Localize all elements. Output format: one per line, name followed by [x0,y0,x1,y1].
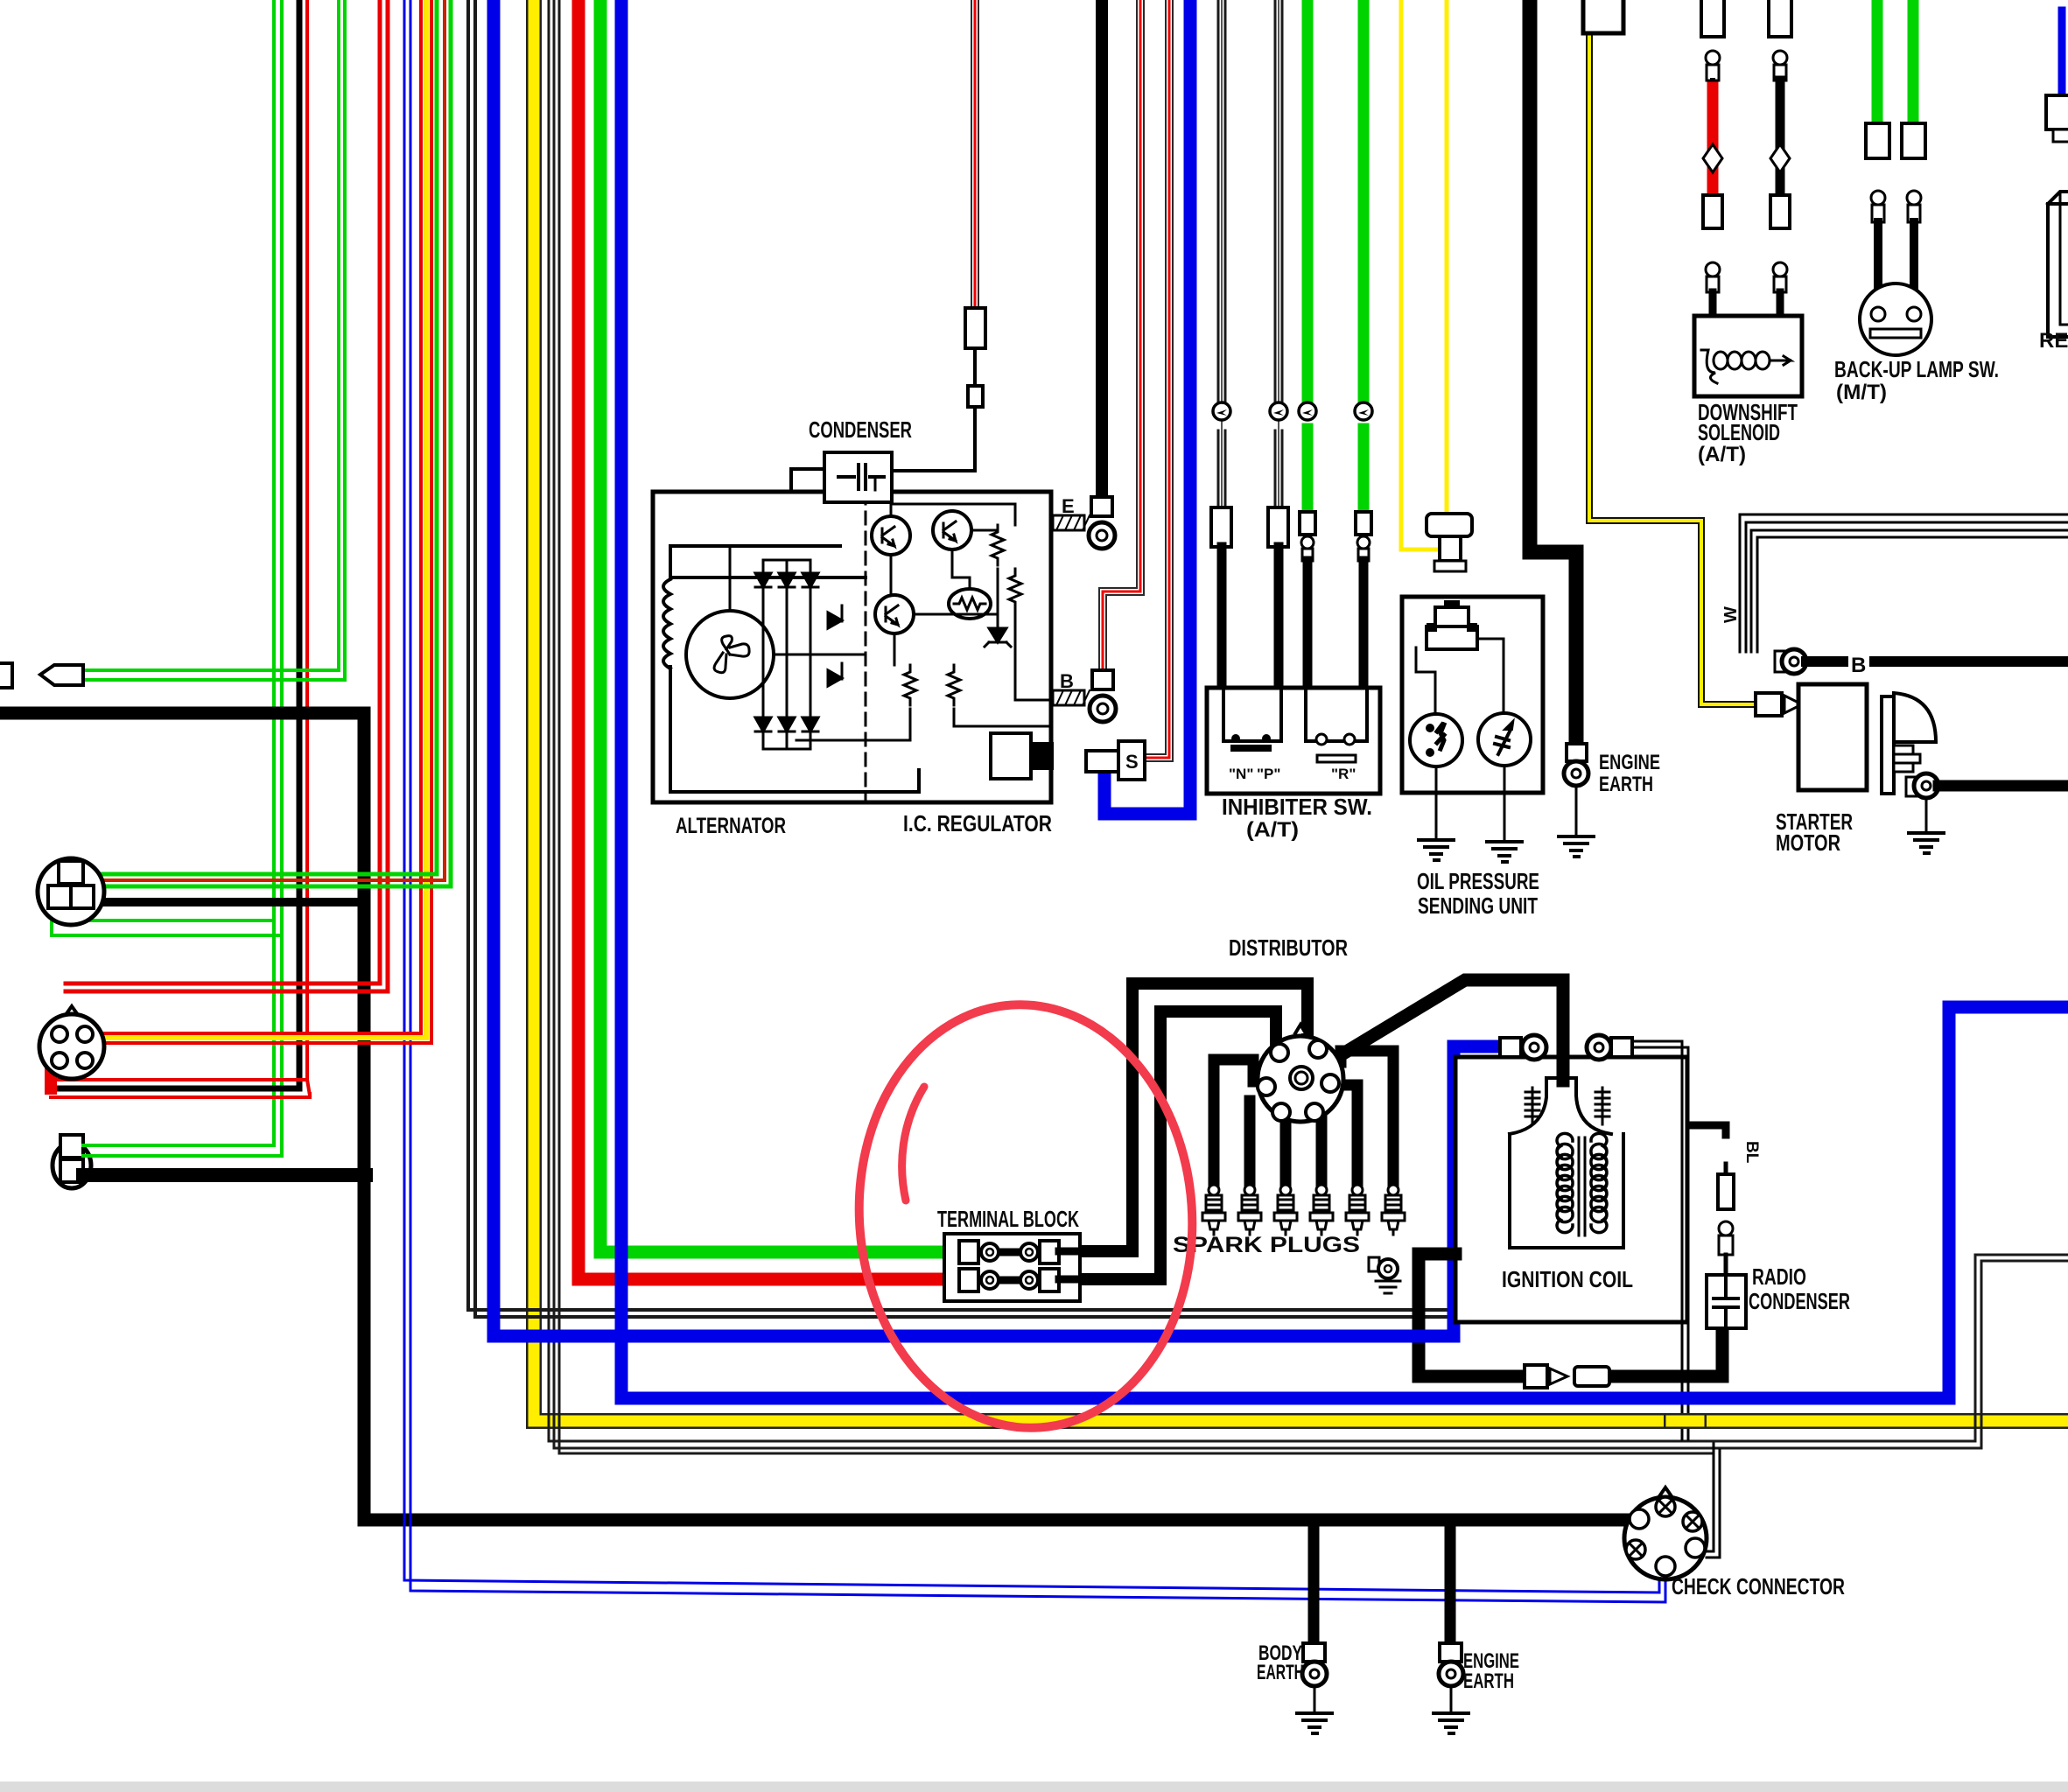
diode bridge rows [762,560,765,749]
E terminal bolt [1053,515,1084,530]
regulator transistor Q3 [875,595,914,633]
wire patches (bundles crossing over black vertical) [350,872,378,877]
wire black thick L (to engine earth near oil unit) [1530,0,1576,744]
svg-text:E: E [1062,495,1075,517]
svg-text:IGNITION COIL: IGNITION COIL [1502,1266,1633,1292]
svg-text:EARTH: EARTH [1257,1661,1304,1684]
thermistor [949,589,991,619]
spark wire 3 (plug1) [1214,1060,1253,1186]
terminal block box [944,1234,1080,1301]
condenser left lead [791,469,824,492]
BL bullet connector [1719,1221,1733,1235]
black wires down to inhibiter box [1217,547,1227,688]
coil internals: bell housing [1510,1078,1611,1134]
connector capsules above condenser [968,386,983,407]
hand-drawn red annotation circle around terminal block [845,993,1207,1438]
ignition coil outer box [1455,1057,1687,1322]
coil + ring terminal (blue side) [1500,1038,1521,1057]
svg-text:ALTERNATOR: ALTERNATOR [676,814,786,838]
zener diode [985,628,1011,647]
resistor box at right edge [2048,192,2068,337]
wire green lamp1 lower pair [58,917,274,920]
starter motor body [1798,684,1867,790]
inline connector bullet [1525,1365,1547,1388]
svg-text:BACK-UP LAMP SW.: BACK-UP LAMP SW. [1834,356,1999,382]
wire red RDT (thick, to terminal block) [578,0,963,1279]
wire blue patches over black crossings [1411,1330,1427,1343]
black wires with bullets to back-up switch [1871,191,1885,205]
svg-text:B: B [1851,654,1866,677]
diodes pointing right mid [828,605,842,628]
back-up lamp switch [1860,283,1931,355]
wire white W2 trio (full width run, up right side) [549,0,2068,1441]
B terminal bolt [1053,690,1084,705]
inhibiter wire bullets (inline connectors) [1213,402,1230,420]
wire white branch to check connector [1707,1444,1714,1551]
svg-text:RES: RES [2039,329,2068,353]
condenser box [824,452,892,502]
svg-text:ENGINE: ENGINE [1599,751,1660,774]
wire patch blue B over coil white wire [1673,1392,1697,1405]
condenser right lead to connector [892,407,975,471]
wire patch W1 over yellow vertical [522,1308,545,1312]
lamp L1 (sender with 3 terminals) [38,858,104,925]
wire black horizontal top-left L [0,713,1624,1520]
distributor earth ring [1369,1257,1379,1271]
svg-text:SOLENOID: SOLENOID [1698,419,1780,445]
ground symbol right [1487,842,1522,862]
wire black lamp1 to vertical [55,898,361,906]
wire green GW1 (left thin green vertical to lamp3) [86,0,274,1145]
bullet connector (green feed) [40,665,83,685]
distributor cap [1258,1036,1343,1122]
regulator connecting lines [891,504,1015,525]
wire yellow fusible A [1401,0,1439,549]
leads to circles [1416,647,1435,715]
sender rheostat circle [1478,713,1531,766]
body earth drop [1308,1522,1320,1643]
svg-text:CONDENSER: CONDENSER [809,416,912,443]
spark plugs [1202,1185,1405,1235]
oil pressure sending unit box [1402,597,1543,793]
wire red lamp2 bottom (red w/ black core) [45,1073,57,1088]
B ring terminal at starter [1775,651,1785,672]
inhibiter switch box [1207,688,1380,794]
svg-text:OIL PRESSURE: OIL PRESSURE [1417,868,1539,894]
wire green GW2 [86,0,282,1156]
ground symbol left [1419,840,1454,860]
ground wires [1435,766,1438,838]
svg-text:I.C. REGULATOR: I.C. REGULATOR [903,810,1052,836]
svg-text:"R": "R" [1331,766,1356,782]
wire white/red S1 (to B terminal ring) [1099,0,1137,670]
svg-text:SPARK PLUGS: SPARK PLUGS [1173,1233,1360,1257]
dashed divider [865,492,867,802]
downshift wire 2 (black) [1769,0,1791,37]
regulator transistor Q1 [872,516,910,555]
rotor circle [686,611,774,698]
svg-text:W: W [1721,606,1741,623]
wire yellow fusible B [1445,0,1449,514]
white rect connectors above inhibiter [1211,507,1231,547]
spark wire 5 (plug3) [1280,1120,1292,1186]
E ring terminal [1091,497,1112,516]
secondary winding loops [1591,1133,1607,1232]
back-up lamp green wires [1872,0,1883,123]
wire green/red/green bundle (lamp1 right bundle) [55,0,437,874]
wire red RD2 double (to lamp1 red horizontal) [66,0,380,983]
bottom gray strip [0,1781,2068,1792]
check connector [1658,1487,1673,1510]
svg-text:SENDING UNIT: SENDING UNIT [1418,892,1538,919]
spark wire 7 (plug5) [1344,1085,1357,1186]
HT coil wire diagonal [1306,980,1563,1078]
radio condenser [1707,1275,1746,1328]
ground symbol [1559,836,1594,857]
spark wire 8 (plug6) [1341,1051,1393,1186]
downshift solenoid box [1694,316,1802,396]
wire red RD1b (red outline of pair, lower) [51,1094,310,1097]
wire yellow YW1 (full width bottom run, black outline) [534,0,2068,1421]
spark wire 6 (plug4) [1316,1101,1328,1186]
regulator transistor Q2 [933,511,971,549]
spark wire 2 (inner frame from terminal block row2) [1085,1011,1276,1279]
starter ground [1925,798,1928,833]
svg-text:(M/T): (M/T) [1836,381,1887,404]
wire white/red S2 (to S connector) [1144,0,1166,754]
wire white W pair to starter B [1740,514,2068,652]
engine earth (near oil unit) connector [1567,744,1587,761]
rotor coils [714,636,749,673]
svg-text:(A/T): (A/T) [1698,443,1746,466]
svg-text:MOTOR: MOTOR [1776,829,1840,856]
yellow wire bullet into starter [1756,693,1782,716]
inner contact box N-P [1223,688,1281,741]
wire green GW3 (to left bullet connector) [83,0,339,670]
field coil [663,579,670,668]
wire white from ring to BL branch [1632,1041,1682,1439]
engine earth drop (bottom) [1445,1522,1456,1643]
svg-text:(A/T): (A/T) [1246,818,1299,842]
wire patch yellow over coil white wire [1672,1413,1699,1429]
svg-text:CHECK CONNECTOR: CHECK CONNECTOR [1672,1573,1845,1599]
regulator S output block [991,733,1031,779]
starter ring terminal [1906,777,1917,796]
fusible link connector [1427,514,1472,536]
wire red RD1a (red outline of pair, upper) [51,0,307,1080]
wire green inhibiter 3 [1302,0,1314,404]
svg-text:DISTRIBUTOR: DISTRIBUTOR [1229,934,1348,961]
alternator / regulator outer box [653,492,1051,802]
wire blue BLA (to ignition coil ring) [494,0,1500,1336]
wire black BK1 (black of black/red pair to lamp2) [51,0,299,1088]
inner contact box R [1306,688,1367,741]
wire blue BL-thin pair (to check connector) [404,0,1659,1592]
row 1 [978,1249,1040,1256]
lamp L2 (4-hole unit) [63,1006,81,1018]
row 2 [978,1277,1040,1284]
wire white inhibiter 1 [1221,0,1223,401]
wire white/red to condenser connector [971,0,972,308]
terminal block group [937,1206,1085,1301]
svg-text:CONDENSER: CONDENSER [1749,1288,1850,1314]
svg-text:B: B [1060,670,1074,692]
wire black to E ring [1096,0,1108,499]
svg-text:BL: BL [1742,1141,1761,1164]
wire green lamp3 pair [83,1144,274,1147]
blue wire at top right edge [2058,10,2066,95]
B ring terminal [1092,670,1113,689]
svg-text:TERMINAL BLOCK: TERMINAL BLOCK [937,1206,1079,1232]
svg-text:EARTH: EARTH [1599,773,1653,796]
regulator resistors [992,525,1004,565]
BL capsule connector [1724,1164,1728,1174]
pressure switch circle [1410,714,1462,766]
lamp L3 (2-terminal lamp) [53,1143,91,1188]
coil - ring terminal (white wire side) [1587,1035,1611,1060]
svg-text:S: S [1125,751,1139,773]
inner connector [1435,607,1469,626]
wire yellow to starter (black outline) [1589,34,1754,704]
connector at right edge [2046,95,2068,129]
wire patch blue A over yellow/white verticals [523,1330,567,1343]
wire black B to right edge (dashed look) [1806,656,1843,667]
solenoid feed wires with bullets [1706,262,1720,276]
connector box at top (yellow feed) [1583,0,1623,33]
svg-text:EARTH: EARTH [1463,1669,1514,1693]
wire red/yellow/red bundle (lamp2 right bundle) [102,0,421,1033]
primary winding loops [1557,1133,1573,1232]
wire green GRT (thick, to terminal block) [600,0,963,1252]
wire white inhibiter 2 [1278,0,1279,401]
wire blue BLC (S terminal loop) [1104,0,1190,814]
svg-text:"N": "N" [1229,766,1253,782]
downshift wire 1 (red) [1701,0,1724,37]
BL branch stub [1690,1125,1726,1135]
spark wire 1 (outer frame from terminal block row1) [1085,983,1307,1251]
wire black coil to radio condenser [1419,1254,1523,1376]
alternator inner frame [670,546,866,577]
green wire capsule+bullet connectors [1300,512,1315,535]
wire green inhibiter 4 [1358,0,1370,404]
wire black from starter to right edge [1938,780,2068,792]
inline connector capsule [1574,1367,1609,1386]
wire blue thin pair patch over black harness [403,1510,406,1529]
S connector [1086,751,1118,772]
wire black lamp3 [83,1168,366,1182]
stator connection lines [729,546,732,611]
connector stub top-left edge [0,663,12,688]
svg-text:"P": "P" [1257,766,1280,782]
svg-text:RADIO: RADIO [1752,1263,1806,1290]
wire blue BLB (big loop to right edge) [621,0,2068,1398]
HT lead re-draw over box [1557,1059,1570,1081]
threaded studs [1525,1088,1539,1124]
capacitor symbol [838,475,854,479]
wire white W1 (double line, full-width lower run) [468,0,1687,1310]
spark wire 4 (plug2) [1244,1101,1256,1186]
wire green GW4 [83,0,345,680]
svg-text:INHIBITER SW.: INHIBITER SW. [1222,794,1372,820]
